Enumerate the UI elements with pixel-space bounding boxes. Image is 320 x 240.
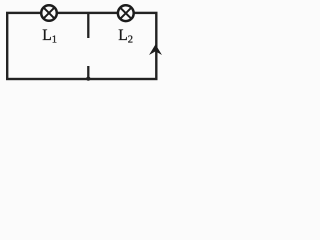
wire loop (7, 13, 156, 79)
lamp L1 (41, 5, 57, 21)
node: bottom stub (87, 66, 89, 79)
current arrow (150, 45, 160, 54)
svg-text:L1: L1 (42, 27, 57, 45)
lamp L2 (118, 5, 134, 21)
svg-text:L2: L2 (118, 27, 133, 45)
junction dot (86, 77, 90, 81)
node: top stub (87, 13, 89, 38)
